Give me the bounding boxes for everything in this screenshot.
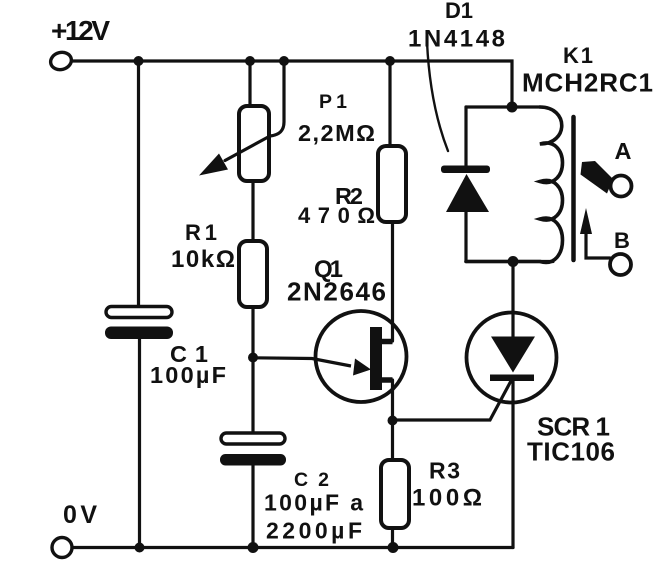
svg-text:2,2MΩ: 2,2MΩ — [298, 120, 375, 146]
svg-text:R3: R3 — [429, 458, 460, 484]
svg-text:+12V: +12V — [51, 15, 110, 46]
svg-text:TIC106: TIC106 — [527, 437, 615, 467]
svg-text:100µF: 100µF — [150, 362, 226, 388]
svg-text:D1: D1 — [445, 0, 473, 23]
svg-text:C 2: C 2 — [294, 469, 329, 491]
svg-text:B: B — [614, 228, 630, 253]
svg-text:0V: 0V — [63, 501, 97, 529]
svg-text:A: A — [615, 138, 632, 164]
svg-text:K 1: K 1 — [563, 43, 593, 68]
svg-text:100Ω: 100Ω — [412, 485, 482, 512]
svg-text:MCH2RC1: MCH2RC1 — [522, 68, 653, 98]
svg-text:10kΩ: 10kΩ — [171, 246, 235, 273]
